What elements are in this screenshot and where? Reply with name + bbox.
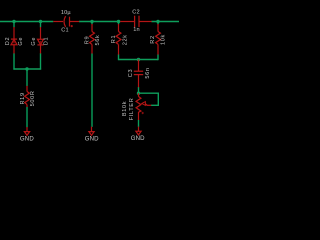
svg-text:B10k: B10k bbox=[122, 101, 128, 116]
svg-text:22k: 22k bbox=[122, 34, 128, 45]
svg-text:56n: 56n bbox=[145, 67, 151, 78]
svg-text:500R: 500R bbox=[30, 90, 36, 106]
svg-text:D1: D1 bbox=[44, 37, 50, 45]
svg-text:R9: R9 bbox=[84, 36, 90, 44]
svg-text:GND: GND bbox=[131, 135, 145, 142]
svg-text:1n: 1n bbox=[133, 27, 140, 33]
svg-text:GND: GND bbox=[85, 136, 99, 143]
svg-text:D2: D2 bbox=[5, 37, 11, 45]
svg-text:C1: C1 bbox=[61, 28, 68, 34]
svg-text:10k: 10k bbox=[161, 34, 167, 45]
svg-text:56k: 56k bbox=[95, 35, 101, 46]
svg-text:C3: C3 bbox=[128, 69, 134, 77]
svg-text:GND: GND bbox=[20, 136, 34, 143]
svg-text:R19: R19 bbox=[20, 92, 26, 104]
svg-text:Ge: Ge bbox=[18, 37, 24, 46]
svg-text:C2: C2 bbox=[132, 10, 139, 16]
svg-text:R1: R1 bbox=[111, 35, 117, 43]
svg-text:Ge: Ge bbox=[31, 37, 37, 46]
svg-text:10µ: 10µ bbox=[61, 10, 72, 16]
svg-text:R2: R2 bbox=[150, 35, 156, 43]
svg-text:FILTER: FILTER bbox=[129, 98, 135, 121]
